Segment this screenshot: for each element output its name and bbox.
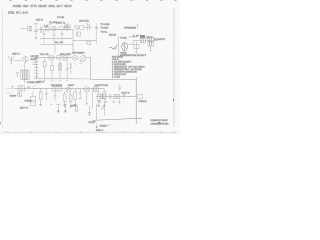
svg-text:OSC 25: OSC 25 (109, 34, 116, 36)
tube V4 rectifier (122, 43, 128, 51)
svg-text:SW 1: SW 1 (37, 81, 45, 83)
power transformer T4 (18, 86, 24, 91)
svg-text:OUTPUT 6F6: OUTPUT 6F6 (95, 85, 109, 87)
cup symbol (108, 47, 117, 50)
resistor R6 (140, 38, 146, 42)
resistor R13 drop (69, 93, 72, 106)
ground marks (74, 99, 105, 107)
terminal P2 (64, 104, 68, 113)
capacitor C11 (16, 73, 19, 79)
output transformer T2 (148, 37, 153, 46)
svg-text:MODEL: MODEL (49, 5, 56, 8)
svg-text:PILOT: PILOT (89, 122, 97, 124)
wire (20, 28, 28, 30)
border frame (3, 8, 177, 132)
capacitor C4 drop (53, 32, 56, 39)
arrow mark (107, 125, 111, 127)
svg-text:TO ANT: TO ANT (101, 27, 110, 30)
svg-text:CIRC: CIRC (23, 5, 29, 8)
resistor R9 drop (51, 61, 54, 79)
wire (24, 63, 26, 70)
tick mark (50, 104, 52, 106)
capacitor C13 (11, 86, 14, 88)
tube V13 (97, 104, 105, 120)
wire (91, 78, 137, 80)
tube V1 (51, 26, 56, 31)
resistor R19 (114, 94, 120, 98)
antenna transformer T3 (21, 70, 30, 80)
ground (135, 53, 138, 54)
capacitor C2a (64, 25, 67, 28)
ground ticks (43, 79, 68, 81)
svg-text:DRAWN BY DATE: DRAWN BY DATE (151, 119, 169, 122)
capacitor C18 drop (79, 89, 82, 98)
tube V11 (66, 87, 71, 92)
wire (85, 56, 90, 58)
svg-text:GND 2: GND 2 (96, 130, 104, 132)
wire (73, 51, 85, 53)
capacitor C20 (110, 94, 112, 99)
wire center drop (54, 45, 56, 54)
resistor R5 (87, 41, 91, 44)
junction (40, 88, 41, 89)
resistor R12 drop (63, 92, 66, 105)
antenna (8, 56, 15, 65)
dark label block (140, 35, 145, 38)
capacitor C16 drop (45, 89, 48, 100)
terminal label rows (101, 24, 111, 33)
svg-text:VOL CTL: VOL CTL (40, 54, 50, 56)
arrow symbol (137, 25, 139, 29)
svg-text:AF AMP: AF AMP (72, 51, 85, 54)
bottom edge ticks (7, 131, 177, 133)
capacitor C14 (27, 86, 30, 87)
check mark (111, 45, 117, 50)
wire bottom bus (92, 118, 142, 120)
notes text block (112, 57, 145, 79)
wire (128, 41, 159, 45)
resistor R21 (75, 104, 78, 113)
wire (70, 62, 72, 74)
svg-text:L 5: L 5 (133, 35, 139, 37)
wire cross bus (73, 40, 96, 42)
title block mark (158, 122, 160, 124)
wire (92, 89, 94, 108)
choke box (52, 87, 61, 91)
svg-text:SCHEM: SCHEM (13, 5, 21, 8)
capacitor C7 (95, 27, 98, 28)
title text line 1 (13, 5, 72, 8)
svg-text:DET 1: DET 1 (56, 23, 66, 25)
variable capacitor C6 (86, 23, 89, 31)
svg-text:117 V: 117 V (20, 107, 29, 109)
resistor R16 drop (97, 91, 100, 105)
small parts below (98, 100, 120, 105)
stub (43, 39, 45, 45)
svg-text:C1 365: C1 365 (57, 17, 65, 19)
svg-text:MODEL: MODEL (8, 11, 15, 14)
capacitor C19 (118, 84, 121, 91)
tube V5 (23, 56, 29, 63)
resistor R10 drop (59, 59, 62, 78)
ground marks (39, 105, 71, 108)
terminal P1 (56, 104, 60, 113)
electrolytic C15 (30, 91, 36, 106)
capacitor C22 (134, 44, 139, 49)
resistor R20 (138, 95, 143, 99)
svg-text:TO B+: TO B+ (101, 31, 109, 33)
pointer line (46, 22, 56, 27)
tube V12 (84, 87, 90, 105)
band switch S1 (35, 57, 39, 80)
wire left drop (72, 30, 74, 52)
svg-text:SPEAKER: SPEAKER (124, 27, 137, 30)
tube V7 (63, 55, 69, 61)
tube V9 (80, 56, 86, 62)
svg-text:CHASSIS: CHASSIS (100, 124, 107, 127)
tube V2 (65, 24, 70, 31)
svg-text:2ND DET: 2ND DET (60, 54, 72, 56)
svg-text:R 22: R 22 (121, 38, 127, 40)
svg-text:FIELD: FIELD (139, 101, 148, 103)
wire lower main bus (6, 88, 16, 90)
tube V8 (72, 55, 77, 60)
resistor R11 drop (39, 89, 42, 104)
wire long right vertical (135, 78, 137, 125)
wire top main bus (38, 29, 73, 31)
resistor R2 (59, 27, 63, 30)
switch S2 (32, 85, 36, 88)
capacitor C3 drop (43, 31, 46, 39)
wire long right drop (90, 57, 92, 79)
svg-text:UBE SC: UBE SC (64, 5, 72, 8)
wire lower bus (40, 38, 72, 40)
svg-text:TO OUTPUT: TO OUTPUT (154, 39, 166, 41)
junction (128, 96, 129, 97)
resistor R3 (80, 26, 84, 29)
wire AVC vertical (118, 36, 120, 56)
svg-text:6.3 V: 6.3 V (122, 93, 131, 95)
resistor R4 (77, 32, 81, 36)
svg-text:ANT 1: ANT 1 (12, 53, 21, 56)
svg-text:ALL RESISTORS 1/2 WATT: ALL RESISTORS 1/2 WATT (120, 54, 147, 57)
resistor R15 drop (74, 89, 77, 104)
wire (84, 52, 86, 56)
wire (24, 80, 26, 83)
marks below tubes (73, 62, 82, 65)
ground (34, 38, 38, 40)
film edge marks (10, 0, 177, 1)
wire second bus (40, 44, 73, 46)
capacitor C12 drop (66, 62, 69, 79)
coil L5 (129, 36, 137, 37)
wire (84, 27, 92, 29)
resistor R8 drop (43, 58, 46, 79)
svg-text:FILTER: FILTER (51, 85, 63, 87)
title text line 2 (8, 11, 28, 14)
junction (136, 41, 138, 52)
capacitor C2b (68, 25, 71, 28)
resistor R17 drop (103, 89, 106, 105)
svg-text:B+ 90: B+ 90 (55, 42, 64, 44)
wire (150, 46, 152, 50)
svg-text:OSC COIL: OSC COIL (79, 20, 90, 22)
resistor R1 (45, 27, 49, 30)
title block text (151, 119, 169, 125)
resistor R14 (94, 87, 99, 92)
capacitor C5 drop (61, 30, 64, 39)
trimmer capacitor C1 (34, 24, 38, 37)
svg-text:TO GND: TO GND (101, 24, 111, 26)
tube V6 (49, 55, 54, 60)
svg-text:ANT C: ANT C (36, 19, 44, 22)
RF transformer T1 (41, 26, 43, 33)
capacitor C17 (54, 91, 57, 101)
svg-text:OF TH: OF TH (30, 5, 37, 8)
svg-text:2-A: 2-A (22, 11, 28, 14)
stub (61, 39, 63, 45)
wire filament bus (96, 96, 136, 98)
ground arrow (96, 124, 98, 131)
wire ground bus (34, 78, 74, 80)
svg-text:NO 1: NO 1 (16, 11, 22, 14)
capacitor C10 (33, 63, 37, 64)
tube V3 (74, 25, 78, 29)
svg-text:12A T: 12A T (56, 5, 63, 8)
coil L1 (28, 26, 32, 31)
edge tick (0, 122, 1, 124)
resistor R18 (100, 94, 106, 98)
svg-text:RECEIV: RECEIV (38, 5, 47, 8)
tube V10 (17, 92, 21, 97)
wire (14, 60, 22, 62)
wire (95, 23, 97, 44)
stub (53, 39, 55, 45)
resistor R7 (57, 56, 61, 59)
terminal stack (89, 106, 91, 115)
capacitor C21 (123, 95, 126, 99)
svg-text:7. C-21: 7. C-21 (112, 77, 121, 79)
wire mid main bus (34, 57, 72, 59)
